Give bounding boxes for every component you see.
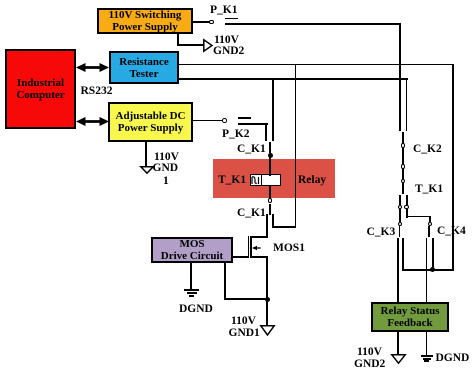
- wire: bottom rail: [402, 269, 454, 271]
- block: Resistance Tester: [109, 51, 179, 84]
- wire: gate from drive circuit: [233, 256, 249, 258]
- switch P_K1 blade: [225, 18, 238, 20]
- node: junction dot on rail: [430, 267, 435, 272]
- wire: fork horizontal to C_K4: [406, 216, 431, 218]
- label RS232: [81, 86, 113, 98]
- wire: MOS drain horizontal: [250, 236, 268, 238]
- label C_K1 (upper): [237, 144, 266, 156]
- wire: adjustable DC down to 110V GND 1: [145, 140, 147, 167]
- wire: L corner horizontal to bus1 vertical: [272, 226, 296, 228]
- wire: horizontal to MOS source node: [224, 298, 268, 300]
- switch C_K3 blade: [399, 226, 401, 237]
- wire: bus1 from Resistance Tester (top output): [179, 64, 454, 66]
- relay coil K1 symbol: [250, 174, 281, 186]
- wire: switching supply to P_K1 contact: [193, 21, 210, 23]
- wire: vertical from bus2 down to C_K1 top: [272, 78, 274, 141]
- wire: bus2 from Resistance Tester (bottom output): [179, 78, 408, 80]
- contact circle fork left: [398, 205, 403, 210]
- wire: C_K4 bottom right branch to rail: [432, 238, 434, 270]
- label DGND (left): [179, 304, 213, 316]
- wire: C_K2 to T_K1 contact 1: [402, 147, 404, 165]
- switch T_K1 contact circle 1: [401, 164, 406, 169]
- label DGND (right): [436, 353, 470, 365]
- label P_K2: [222, 129, 249, 141]
- wire: P_K1 vertical down to C_K2: [399, 23, 401, 131]
- wire: dot to relay coil: [269, 156, 271, 176]
- switch C_K2 contact circle: [401, 143, 406, 148]
- wire: MOS source horizontal: [250, 256, 268, 258]
- node: junction dot above relay coil: [268, 153, 273, 158]
- switch C_K4 blade: [428, 226, 430, 237]
- wire: vertical from bus1 down through relay to L-corner: [295, 64, 297, 229]
- wire: P_K1 output to right: [225, 23, 401, 25]
- block: Industrial Computer: [5, 49, 76, 129]
- label C_K4: [437, 226, 466, 238]
- wire: down to C_K4 contact: [429, 216, 431, 223]
- contact circle fork right: [404, 205, 409, 210]
- label C_K3: [367, 227, 396, 239]
- switch C_K3 contact circle: [398, 222, 403, 227]
- label MOS1: [273, 243, 305, 255]
- switch P_K1 contact circle: [209, 20, 214, 25]
- block: Adjustable DC Power Supply: [108, 102, 193, 142]
- wire: fork right down: [406, 209, 408, 218]
- wire: between T_K1 contacts: [402, 168, 404, 180]
- label 110V GND 1: [154, 152, 179, 164]
- wire: C_K3 bottom left branch to feedback box: [397, 238, 399, 302]
- wire: to 110V GND2 triangle: [177, 44, 204, 46]
- switch C_K1 lower contact circle: [268, 198, 273, 203]
- wire: switching supply down to 110V GND2: [177, 34, 179, 46]
- switch C_K4 contact circle: [428, 222, 433, 227]
- switch C_K1 lower blade: [269, 204, 271, 215]
- ground DGND (right) earth bars: [421, 355, 433, 357]
- wire: P_K2 output: [238, 123, 269, 125]
- wire: C_K1 bottom left branch down (to MOS drain): [266, 214, 268, 238]
- transistor MOS1 arrow: [252, 245, 261, 251]
- label C_K1 (lower): [237, 208, 266, 220]
- wire: C_K3 bottom right branch to rail: [402, 238, 404, 271]
- ground DGND (left) earth bars: [184, 289, 199, 291]
- label T_K1 (right chain): [415, 184, 443, 196]
- wire: fork left to C_K3: [399, 209, 401, 223]
- ground triangle 110V GND 1 (down, open): [140, 166, 154, 174]
- ground triangle 110V GND1 (down, open): [260, 325, 275, 336]
- label C_K2: [413, 144, 442, 156]
- wire: MOS source down to GND1: [266, 256, 268, 326]
- ground triangle 110V GND2 (bottom, open): [391, 354, 406, 364]
- wire: bus1 right vertical down: [452, 64, 454, 271]
- wire: feedback box left output down: [397, 331, 399, 355]
- node: junction dot at GND1: [265, 297, 270, 302]
- block: Relay (no border): [213, 159, 336, 198]
- switch C_K1 blade (top): [269, 142, 271, 155]
- wire: C_K1 bottom right branch down: [272, 214, 274, 227]
- wire: drive circuit right output down: [224, 263, 226, 300]
- label P_K1: [210, 5, 237, 17]
- switch P_K2 blade: [238, 117, 252, 119]
- switch T_K1 blade: [402, 183, 404, 194]
- wire: T_K1 fork right down: [406, 195, 408, 206]
- transistor MOS1 channel bar: [250, 236, 252, 258]
- block: MOS Drive Circuit: [151, 237, 233, 263]
- wire: T_K1 fork left down: [399, 195, 401, 206]
- transistor MOS1 gate bar: [248, 236, 250, 258]
- switch T_K1 contact circle 2: [401, 179, 406, 184]
- bidirectional arrow to Adjustable DC: [76, 114, 109, 129]
- wire: bus2 right end down to C_K2: [406, 78, 408, 131]
- label 110V GND2 (bottom): [357, 347, 382, 359]
- wire: C_K4 bottom left branch to feedback box: [426, 238, 428, 302]
- block: Relay Status Feedback: [371, 302, 449, 333]
- label 110V GND2 (top): [214, 35, 239, 47]
- switch P_K2 contact circle: [222, 118, 227, 123]
- bidirectional arrow RS232 to Resistance Tester: [76, 60, 109, 75]
- wire: P_K2 output down to C_K1: [265, 123, 267, 141]
- wire: drive circuit left output down (DGND): [190, 263, 192, 291]
- label Relay inside relay box: [298, 175, 326, 187]
- block: 110V Switching Power Supply: [97, 8, 193, 34]
- switch C_K2 blade: [402, 132, 404, 144]
- wire: adjustable DC to P_K2 contact: [193, 120, 223, 122]
- ground triangle 110V GND2 (right-pointing, open): [203, 39, 213, 52]
- wire: feedback box right output down: [426, 331, 428, 357]
- wire: relay coil to C_K1 lower contact: [269, 185, 271, 199]
- label 110V GND1: [231, 316, 256, 328]
- label T_K1 inside relay box: [218, 175, 246, 187]
